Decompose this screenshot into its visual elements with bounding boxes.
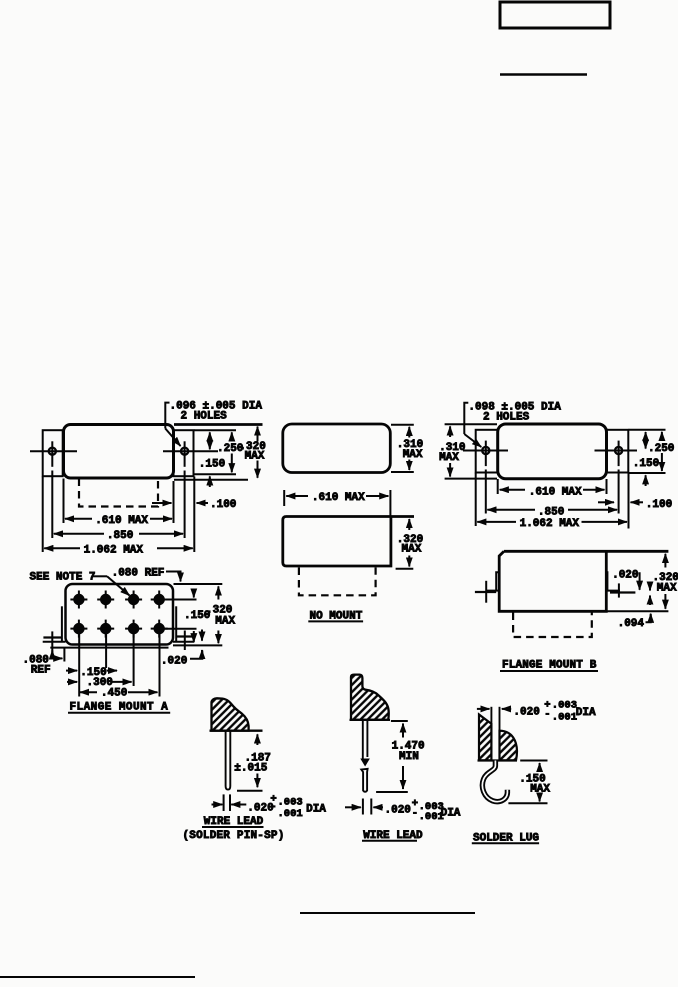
- svg-text:.020: .020: [612, 569, 638, 581]
- fig7 hatched body section: [351, 675, 389, 720]
- svg-text:MAX: MAX: [439, 452, 459, 464]
- fig3 right hole: [615, 447, 622, 454]
- svg-text:MAX: MAX: [657, 583, 677, 595]
- fig3 dim .250: [661, 432, 663, 441]
- svg-text:-: -: [544, 708, 550, 720]
- svg-text:SEE NOTE 7: SEE NOTE 7: [30, 572, 96, 584]
- svg-text:DIA: DIA: [306, 804, 326, 816]
- svg-text:.150: .150: [633, 458, 659, 470]
- fig2 dashed base: [299, 568, 376, 596]
- fig3 ext lines left: [445, 423, 497, 425]
- svg-text:FLANGE MOUNT B: FLANGE MOUNT B: [502, 660, 597, 672]
- fig6 pin bottom ext: [237, 790, 263, 792]
- fig6 hatched body section: [212, 698, 249, 730]
- svg-text:±.015: ±.015: [234, 763, 267, 775]
- fig8 wire through body: [490, 707, 492, 760]
- fig3 ext lines right: [629, 429, 666, 431]
- svg-text:.450: .450: [101, 687, 127, 699]
- fig1 dim .150 arrows: [209, 432, 211, 449]
- svg-text:MIN: MIN: [399, 751, 419, 763]
- svg-text:MAX: MAX: [245, 451, 265, 463]
- bottom center rule: [300, 912, 475, 914]
- svg-text:FLANGE MOUNT A: FLANGE MOUNT A: [70, 701, 169, 713]
- fig1 dim .100: [152, 502, 172, 504]
- fig2 side view bottom ext: [396, 568, 414, 570]
- fig1 ext verticals below: [42, 477, 44, 553]
- fig7 dia ext lines: [362, 799, 364, 815]
- fig8 dim .150 MAX: [520, 760, 547, 762]
- svg-text:DIA: DIA: [576, 707, 596, 719]
- fig2 dim .610 MAX: [283, 490, 285, 506]
- fig6 pin: [226, 732, 231, 790]
- fig7 top ext line: [391, 720, 408, 722]
- fig5 left tab cross: [475, 591, 496, 593]
- svg-text:.001: .001: [278, 808, 303, 820]
- fig5 left tab: [486, 572, 500, 590]
- svg-text:MAX: MAX: [215, 616, 235, 628]
- bottom left footer rule: [0, 976, 195, 978]
- fig1 left hole: [49, 448, 56, 455]
- fig5 right tab: [606, 572, 620, 590]
- fig3 dim .610 MAX: [500, 489, 525, 491]
- fig4 dim .320 MAX right: [217, 586, 219, 599]
- fig7 dia arrows: [345, 806, 361, 808]
- fig4 dim .150 bottom: [66, 670, 77, 672]
- fig4 pins row1: [70, 591, 167, 609]
- fig1 dim 1.062 MAX: [44, 547, 80, 549]
- fig1 ext lines right: [174, 423, 263, 426]
- fig8 hook: [482, 761, 507, 802]
- fig1 dim .610 MAX: [65, 518, 92, 520]
- fig8 body bottom line: [478, 759, 518, 761]
- fig7 wire lower segment: [361, 769, 367, 792]
- svg-text:MAX: MAX: [402, 543, 422, 555]
- fig3 left flange: [476, 430, 498, 473]
- fig3 dim .850: [487, 509, 535, 511]
- fig2 dim .310 MAX: [408, 427, 410, 438]
- fig4 right flange profile: [175, 606, 177, 641]
- fig1 dim .250: [231, 432, 233, 441]
- fig8 hatched body section: [479, 715, 517, 761]
- svg-text:.094: .094: [618, 618, 645, 630]
- svg-text:.250: .250: [648, 443, 674, 455]
- svg-text:2 HOLES: 2 HOLES: [483, 412, 530, 424]
- fig2 top view body: [283, 424, 391, 473]
- svg-text:REF: REF: [31, 665, 51, 677]
- fig5 dashed base: [513, 613, 592, 638]
- svg-text:.150: .150: [199, 458, 225, 470]
- fig1 dashed base: [79, 479, 158, 507]
- svg-text:.850: .850: [538, 506, 564, 518]
- fig2 dim .320 MAX: [408, 519, 410, 530]
- svg-text:.020: .020: [513, 706, 539, 718]
- fig6 dia ext lines: [223, 794, 225, 811]
- fig5 right tab cross: [610, 591, 635, 593]
- svg-text:.020: .020: [161, 656, 187, 668]
- svg-text:DIA: DIA: [441, 807, 461, 819]
- fig4 ext verticals below: [63, 648, 65, 662]
- svg-text:.610 MAX: .610 MAX: [529, 486, 582, 498]
- fig5 bottom ext: [606, 610, 668, 612]
- fig1 dim .850: [54, 533, 104, 535]
- svg-text:(SOLDER PIN-SP): (SOLDER PIN-SP): [183, 830, 285, 842]
- fig7 wire upper segment: [362, 721, 364, 759]
- fig4 left flange hole cross: [43, 636, 61, 638]
- fig1 dim .320 MAX: [257, 427, 259, 442]
- svg-text:.850: .850: [107, 530, 133, 542]
- svg-text:-: -: [412, 808, 418, 820]
- fig5 dim .320 MAX: [664, 554, 666, 568]
- fig2 side view body: [283, 517, 414, 567]
- fig4 dim .150 right: [193, 589, 195, 598]
- fig7 bottom ext line: [376, 791, 408, 793]
- fig1 right hole: [181, 448, 188, 455]
- fig7 body bottom line: [350, 719, 391, 721]
- svg-text:MAX: MAX: [530, 784, 550, 796]
- fig4 bottom ext line: [50, 647, 168, 649]
- svg-text:.001: .001: [552, 711, 577, 723]
- svg-text:.003: .003: [552, 700, 577, 712]
- fig1 right flange: [174, 430, 194, 476]
- fig3 leader .098 2 holes: [464, 403, 468, 434]
- fig4 ext lines right: [174, 583, 223, 585]
- fig6 body bottom line: [210, 730, 263, 732]
- fig3 dim .310 MAX (left): [449, 426, 451, 437]
- fig1 leader .096 2 holes: [165, 403, 169, 429]
- svg-text:.020: .020: [385, 805, 411, 817]
- svg-text:MAX: MAX: [403, 449, 423, 461]
- fig6 dim .187: [256, 734, 258, 745]
- fig1 body: [64, 425, 174, 479]
- svg-text:.080 REF: .080 REF: [112, 567, 165, 579]
- svg-text:-: -: [270, 801, 276, 813]
- fig3 dim 1.062 MAX: [477, 521, 516, 523]
- fig3 left hole: [482, 447, 489, 454]
- fig4 right flange hole cross: [177, 635, 193, 637]
- fig4 dim .450 bottom: [80, 691, 97, 693]
- fig3 right flange: [607, 430, 629, 473]
- fig8 dia arrows top: [477, 708, 490, 710]
- fig4 pins row2: [70, 620, 167, 638]
- fig6 dia arrows: [212, 804, 223, 806]
- fig4 dim .300 bottom: [67, 681, 77, 683]
- svg-text:2 HOLES: 2 HOLES: [181, 410, 228, 422]
- svg-text:.100: .100: [210, 499, 236, 511]
- fig4 arrow at flange hole CL: [51, 650, 53, 656]
- fig3 dim .100: [598, 501, 614, 503]
- svg-text:.610 MAX: .610 MAX: [95, 515, 148, 527]
- fig3 dim .150 arrows: [645, 432, 647, 449]
- fig1 left flange: [43, 430, 63, 476]
- fig7 dim 1.470 MIN: [402, 724, 404, 738]
- svg-text:.003: .003: [278, 797, 303, 809]
- svg-text:.100: .100: [646, 499, 672, 511]
- svg-text:.610 MAX: .610 MAX: [312, 492, 365, 504]
- fig2 ext lines right of top view: [391, 424, 414, 426]
- title underline (top right): [500, 73, 587, 76]
- svg-text:1.062 MAX: 1.062 MAX: [520, 518, 580, 530]
- svg-text:1.062 MAX: 1.062 MAX: [84, 544, 144, 556]
- fig4 dim .020: [201, 630, 203, 641]
- fig5 body: [499, 551, 668, 611]
- fig4 body: [66, 584, 174, 645]
- fig3 body: [498, 424, 607, 479]
- fig3 ext verticals below: [475, 473, 477, 526]
- title block box (top right): [500, 2, 610, 28]
- fig4 left flange profile: [61, 606, 63, 641]
